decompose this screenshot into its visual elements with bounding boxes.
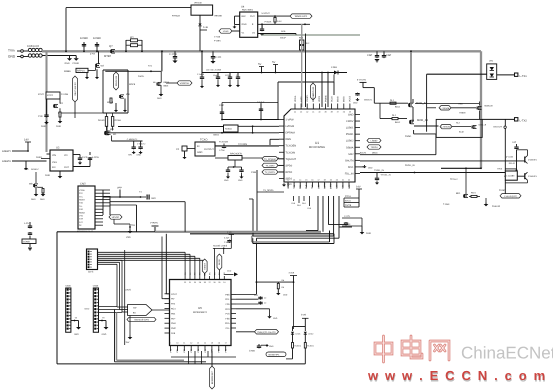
svg-text:1GW8: 1GW8 <box>80 37 88 40</box>
svg-text:1GW8: 1GW8 <box>223 30 230 33</box>
svg-text:R-5V: R-5V <box>277 20 282 23</box>
svg-text:PD-: PD- <box>171 298 175 301</box>
svg-text:TX_SPI(4W): TX_SPI(4W) <box>264 158 276 161</box>
svg-text:TRB48: TRB48 <box>459 112 466 115</box>
svg-text:PD+: PD+ <box>171 317 176 320</box>
svg-text:TX_DATCL: TX_DATCL <box>265 171 277 174</box>
regulator VR1 <box>191 5 213 15</box>
resistor RFP1 box <box>76 68 88 72</box>
svg-text:RESET: RESET <box>204 262 207 269</box>
svg-text:VSUP1: VSUP1 <box>306 94 309 102</box>
ground G-2C4 <box>269 309 271 316</box>
ground G-U1pins <box>282 185 286 187</box>
svg-text:CN/2: CN/2 <box>80 183 86 186</box>
wire U4 pin2 long right <box>258 23 310 25</box>
svg-text:CN06: CN06 <box>93 285 99 288</box>
svg-text:1OUT: 1OUT <box>171 293 178 296</box>
capacitor C-MHZ1 <box>227 167 229 169</box>
wire mod2 to right <box>414 125 439 127</box>
svg-text:REF: REF <box>242 15 247 18</box>
svg-text:PWM1: PWM1 <box>346 133 354 136</box>
ground G-RT <box>361 226 363 231</box>
svg-text:OUT: OUT <box>64 166 70 169</box>
svg-text:TCXO: TCXO <box>200 139 207 142</box>
svg-text:GND: GND <box>41 125 46 128</box>
svg-text:0.47uF: 0.47uF <box>257 101 265 104</box>
svg-text:U1: U1 <box>315 141 319 145</box>
wire feed L-TX1 <box>427 73 487 75</box>
wire cn3 bundle right to U5 fan <box>98 251 186 253</box>
svg-text:BDM/RESET: BDM/RESET <box>211 370 214 384</box>
svg-text:BKGD: BKGD <box>218 259 221 265</box>
wire VBAT bus <box>42 50 481 52</box>
wire top loop <box>65 8 67 52</box>
svg-text:GND: GND <box>31 198 36 201</box>
svg-text:CAP: CAP <box>386 54 392 57</box>
svg-text:VPP: VPP <box>117 187 122 190</box>
connector CN3 <box>87 249 98 270</box>
svg-text:BF1: BF1 <box>456 192 461 195</box>
svg-text:RGND-C: RGND-C <box>31 168 40 171</box>
svg-text:D-4B: D-4B <box>203 26 208 29</box>
net flag VALVE <box>500 194 521 198</box>
wire dta collectors <box>527 150 529 156</box>
svg-text:MOSI: MOSI <box>337 96 340 102</box>
svg-text:OUT: OUT <box>250 15 255 18</box>
svg-text:12: 12 <box>190 342 192 345</box>
svg-text:5-VOUT1: 5-VOUT1 <box>357 79 367 82</box>
svg-text:J-P5: J-P5 <box>24 222 29 225</box>
svg-text:4-PW: 4-PW <box>90 53 95 56</box>
wire ls1 up <box>479 102 481 106</box>
svg-text:13: 13 <box>293 179 295 182</box>
U5 left pins <box>165 293 170 295</box>
ground G-K2b <box>58 121 63 123</box>
svg-text:RMB2: RMB2 <box>79 211 86 214</box>
svg-text:GND1: GND1 <box>36 156 43 159</box>
resistor AVCA <box>344 202 359 204</box>
svg-text:VIN: VIN <box>52 154 56 157</box>
wire pin3 <box>107 132 279 134</box>
wire bottom pins join <box>171 356 236 358</box>
svg-text:ChinaECNet: ChinaECNet <box>461 344 553 363</box>
svg-text:14V: 14V <box>24 139 29 142</box>
capacitor C-FDL <box>376 173 378 178</box>
capacitor C5c <box>229 73 231 77</box>
wire bundle b4 <box>257 237 340 239</box>
wire drop x508 <box>507 150 509 155</box>
svg-text:DTA/MT5: DTA/MT5 <box>528 175 538 178</box>
capacitor C-end <box>345 222 347 223</box>
wire uevdd <box>113 219 115 224</box>
ground G3 <box>172 61 177 64</box>
svg-text:27: 27 <box>209 281 211 284</box>
wire bundle bottom black <box>114 310 116 362</box>
svg-text:RGG: RGG <box>471 192 476 195</box>
svg-text:TX_SPI05: TX_SPI05 <box>263 189 274 192</box>
svg-text:GND: GND <box>238 179 243 182</box>
svg-text:C-STL: C-STL <box>344 215 351 218</box>
svg-text:DL8: DL8 <box>305 184 308 189</box>
svg-text:2N03L: 2N03L <box>138 75 145 78</box>
svg-text:VDDA: VDDA <box>294 95 297 102</box>
wire section bottom <box>187 363 305 365</box>
svg-text:15: 15 <box>305 179 307 182</box>
svg-text:VTRB: VTRB <box>79 189 85 192</box>
svg-text:GND: GND <box>24 168 29 171</box>
svg-text:TX_DMO: TX_DMO <box>266 164 275 167</box>
svg-text:GND: GND <box>102 333 107 336</box>
svg-text:Q?: Q? <box>109 45 113 48</box>
svg-text:TXD04: TXD04 <box>370 146 378 149</box>
svg-text:BAUT4: BAUT4 <box>345 159 354 162</box>
ground G1 <box>69 56 71 58</box>
wire mux out <box>152 309 170 311</box>
svg-text:41: 41 <box>312 111 314 114</box>
wire fdl <box>360 172 505 174</box>
svg-text:P-BIAS: P-BIAS <box>265 21 272 24</box>
svg-text:PM4: PM4 <box>171 322 176 325</box>
svg-text:4-CS0B8: 4-CS0B8 <box>261 24 264 31</box>
wire rgw <box>106 113 108 117</box>
svg-text:CN05: CN05 <box>65 285 71 288</box>
svg-text:RB7W: RB7W <box>164 81 170 84</box>
svg-text:C-YD8: C-YD8 <box>169 53 177 56</box>
vertical flag BKGD <box>217 254 222 270</box>
ground G-pin8 <box>360 166 364 168</box>
svg-text:DTA/MT5: DTA/MT5 <box>528 159 538 162</box>
ground G-W8a <box>114 110 118 112</box>
svg-text:RGP6: RGP6 <box>129 83 136 86</box>
svg-text:GND: GND <box>8 55 16 59</box>
svg-text:INT0: INT0 <box>330 183 333 189</box>
ground G-CN5 <box>71 320 79 322</box>
svg-text:44: 44 <box>294 111 296 114</box>
svg-text:TCXOEN: TCXOEN <box>286 145 297 148</box>
wire lvds vertical <box>124 250 126 345</box>
svg-text:5V: 5V <box>272 61 275 64</box>
wire CSB down <box>252 199 254 236</box>
power flag 5V b <box>273 64 278 66</box>
svg-text:RGB6: RGB6 <box>64 70 71 73</box>
svg-text:MBOX: MBOX <box>372 152 378 155</box>
svg-text:12: 12 <box>287 179 289 182</box>
net flag V1 in <box>219 29 232 33</box>
ground G-U3b <box>24 168 28 170</box>
U1 left pins <box>279 119 284 121</box>
svg-text:37: 37 <box>337 111 339 114</box>
wire inner boundary <box>136 205 138 232</box>
wire bundle b3 <box>252 235 334 237</box>
svg-text:AUDIO LINE3: AUDIO LINE3 <box>213 245 228 248</box>
capacitor C-MHZ2 <box>241 167 243 169</box>
wire loop top <box>277 82 279 119</box>
U5 bottom pins <box>170 346 172 352</box>
svg-text:MAIN-SW: MAIN-SW <box>115 75 118 86</box>
svg-text:14: 14 <box>299 179 301 182</box>
U1 top pins <box>294 104 296 110</box>
resistor RLED2 <box>304 335 306 343</box>
IC U1 system basis chip MC33905 <box>284 109 355 182</box>
node A1 <box>65 50 67 52</box>
wire bundle to pin1 <box>165 234 167 294</box>
svg-text:39: 39 <box>325 111 327 114</box>
svg-text:SM2: SM2 <box>348 153 354 156</box>
resistor RGW0 <box>111 117 113 127</box>
net flag VINSTBL <box>177 81 192 85</box>
svg-text:35: 35 <box>349 111 351 114</box>
svg-text:C-B0UT2: C-B0UT2 <box>137 143 146 146</box>
IC U3 LDO <box>50 150 73 171</box>
wire vert 185 <box>184 202 186 232</box>
svg-text:RELAY: RELAY <box>509 162 516 165</box>
wire RU2 drops <box>301 24 303 107</box>
wire relay <box>504 128 506 171</box>
svg-text:RQK-3WK1: RQK-3WK1 <box>242 9 254 12</box>
svg-text:C-YD: C-YD <box>215 56 221 59</box>
resistor RGW8 <box>105 117 107 127</box>
vertical flag BDM <box>211 351 213 366</box>
svg-text:9: 9 <box>170 342 171 345</box>
svg-text:GND: GND <box>242 23 247 26</box>
capacitor C5a <box>201 51 203 76</box>
power net 3V3a <box>290 275 297 277</box>
wire MID vertical <box>115 90 117 97</box>
resistor PWTB <box>344 206 359 208</box>
net flag L-SENSE2 <box>440 124 452 128</box>
wire w1 drain <box>111 136 113 142</box>
power net 3V3 top <box>229 234 234 236</box>
svg-text:BAL1: BAL1 <box>395 105 401 108</box>
ground G-W2b <box>41 194 46 196</box>
svg-text:CS0: CS0 <box>317 184 320 189</box>
svg-text:GND: GND <box>137 154 142 157</box>
svg-text:C-MB: C-MB <box>249 350 255 353</box>
svg-text:3-V8: 3-V8 <box>301 314 307 317</box>
svg-text:WAKE-UP1: WAKE-UP1 <box>295 15 308 18</box>
svg-text:LSB02: LSB02 <box>371 140 379 143</box>
svg-text:C-PS: C-PS <box>82 156 88 159</box>
svg-text:EN: EN <box>52 166 56 169</box>
svg-text:CON-CH: CON-CH <box>27 44 39 48</box>
svg-text:C-TA8: C-TA8 <box>219 149 224 152</box>
svg-text:16: 16 <box>218 342 220 345</box>
bus ripper SW <box>128 305 152 316</box>
svg-text:LED1: LED1 <box>296 333 302 336</box>
svg-text:LAP0: LAP0 <box>300 96 303 102</box>
svg-text:TXD/L_IN: TXD/L_IN <box>374 169 384 172</box>
ground G-R4 <box>276 293 280 295</box>
svg-text:20: 20 <box>336 179 338 182</box>
test point T4 <box>140 196 142 198</box>
svg-text:REG5B: REG5B <box>215 15 223 18</box>
svg-text:MISO: MISO <box>343 96 346 102</box>
svg-text:L-TX1: L-TX1 <box>520 75 528 78</box>
svg-text:MC9S08GT2: MC9S08GT2 <box>193 311 208 314</box>
svg-text:LSB02: LSB02 <box>346 140 354 143</box>
svg-text:CAP: CAP <box>367 54 373 57</box>
wire pwm loop <box>414 133 436 135</box>
wire bundle b2 <box>190 233 334 235</box>
svg-text:RTC2: RTC2 <box>47 94 54 97</box>
net flag LSB02f <box>367 138 381 142</box>
svg-text:PD1: PD1 <box>225 298 230 301</box>
resistor REXTAL <box>228 156 242 161</box>
svg-text:PD3: PD3 <box>225 308 230 311</box>
capacitor C-TCXB <box>223 144 225 146</box>
svg-text:MC33742WG: MC33742WG <box>309 146 325 149</box>
svg-text:M08LL8: M08LL8 <box>479 124 487 127</box>
svg-text:29: 29 <box>199 281 201 284</box>
diode D-5V <box>276 72 347 74</box>
resistor R4 <box>277 283 279 288</box>
svg-text:PM2: PM2 <box>171 327 176 330</box>
svg-text:RMBY: RMBY <box>79 199 86 202</box>
LED LED2 <box>304 332 307 334</box>
svg-text:30: 30 <box>194 281 196 284</box>
wire cn3 bundle down <box>98 259 123 261</box>
svg-text:GND: GND <box>224 179 229 182</box>
svg-text:RLED1: RLED1 <box>307 345 314 348</box>
svg-text:VSS: VSS <box>52 161 57 164</box>
wire mod out <box>413 130 415 134</box>
svg-text:SW: SW <box>133 307 136 310</box>
svg-text:VR-D08: VR-D08 <box>194 2 202 5</box>
resistor RTCA <box>344 197 359 199</box>
wire bundle bottom gray <box>116 313 118 361</box>
net flag UEVDD <box>109 215 122 219</box>
svg-text:36: 36 <box>343 111 345 114</box>
svg-text:4-CPB: 4-CPB <box>92 156 99 159</box>
svg-text:MODIN: MODIN <box>312 94 315 102</box>
svg-text:GND: GND <box>368 167 373 170</box>
wire rextal bottom <box>234 160 236 167</box>
svg-text:NC/2: NC/2 <box>85 308 91 311</box>
svg-text:AD0: AD0 <box>336 184 339 189</box>
svg-text:PB4: PB4 <box>171 312 176 315</box>
terminal L-TX1 <box>515 73 518 76</box>
U1 right pins <box>355 114 360 116</box>
svg-text:13: 13 <box>197 342 199 345</box>
net flag WAKE-UP1 <box>290 14 312 18</box>
svg-text:GND: GND <box>227 270 232 273</box>
svg-text:C4P: C4P <box>512 141 517 144</box>
svg-text:25: 25 <box>218 281 220 284</box>
svg-text:11: 11 <box>183 342 185 345</box>
svg-text:AD2: AD2 <box>348 184 351 189</box>
svg-text:TM0: TM0 <box>311 184 314 189</box>
node A3 <box>201 50 203 52</box>
transistor Q-DT1 <box>524 157 526 163</box>
transistor Q-LS1 <box>477 106 479 109</box>
resistor COM8 <box>22 239 36 244</box>
svg-text:BAUT4: BAUT4 <box>360 152 367 155</box>
terminal L-TX2 <box>515 118 518 121</box>
svg-text:GND: GND <box>273 317 278 320</box>
wire 5vout long <box>363 87 374 89</box>
svg-text:RX1: RX1 <box>299 184 302 189</box>
svg-text:RC4: RC4 <box>171 308 176 311</box>
svg-text:RGB: RGB <box>281 30 286 33</box>
wire rxd <box>360 160 525 162</box>
U5 top pins <box>184 276 186 280</box>
capacitor J-P5b <box>29 232 31 233</box>
svg-text:3xV: 3xV <box>126 341 130 344</box>
wire nested corner gray <box>251 236 253 242</box>
wire 5V rail <box>202 72 276 74</box>
svg-text:TCXOIN: TCXOIN <box>286 151 296 154</box>
svg-text:PWTB: PWTB <box>345 204 352 207</box>
test point TPA <box>129 226 131 228</box>
wire cstl <box>342 217 362 219</box>
resistor RGP8b <box>59 112 61 117</box>
wire VBAT vertical to U3 <box>45 52 47 152</box>
svg-text:GND: GND <box>157 97 162 100</box>
wire acs8 <box>342 225 362 227</box>
svg-text:FDL_IN: FDL_IN <box>345 172 354 175</box>
svg-text:VDD5: VDD5 <box>318 95 321 102</box>
svg-text:1-VPW: 1-VPW <box>286 119 295 122</box>
svg-text:PDA: PDA <box>225 322 230 325</box>
transistor Q-LS2 <box>472 125 474 128</box>
capacitor C-CS0B8 <box>261 24 263 28</box>
svg-text:C-A4B8: C-A4B8 <box>197 73 205 76</box>
svg-text:GND: GND <box>151 197 156 200</box>
capacitor C5b <box>217 73 219 77</box>
svg-text:PB6: PB6 <box>225 293 230 296</box>
svg-text:U5: U5 <box>198 306 202 310</box>
wire U3 out <box>73 166 90 168</box>
resistor RLED1 <box>292 335 294 343</box>
svg-text:38: 38 <box>331 111 333 114</box>
svg-text:RTV2: RTV2 <box>38 93 44 96</box>
svg-text:T-TXD/L_IN: T-TXD/L_IN <box>381 174 392 177</box>
svg-text:1N: 1N <box>252 32 255 35</box>
ground G-W8b <box>123 110 127 112</box>
svg-text:18: 18 <box>324 179 326 182</box>
svg-text:WKUP: WKUP <box>280 37 287 40</box>
svg-text:5-VOUT: 5-VOUT <box>262 12 271 15</box>
capacitor C-047 <box>260 104 262 119</box>
net flag L-SENSE1 <box>439 106 451 110</box>
svg-text:22: 22 <box>348 179 350 182</box>
svg-text:CN-3: CN-3 <box>88 271 94 274</box>
ground G-K2 <box>44 122 49 124</box>
wire k2 <box>46 99 48 104</box>
svg-text:CSB: CSB <box>251 171 256 174</box>
svg-text:43: 43 <box>300 111 302 114</box>
wire dal <box>360 154 436 156</box>
svg-text:GND: GND <box>56 125 61 128</box>
ground VSS <box>128 231 133 233</box>
wire tcxoen <box>215 145 279 147</box>
capacitor C-YD9 <box>212 51 214 55</box>
svg-text:IN: IN <box>197 145 200 148</box>
svg-text:C-S4B: C-S4B <box>214 36 221 39</box>
resistor network RGB0A <box>224 125 239 132</box>
svg-text:BPD0: BPD0 <box>286 171 293 174</box>
svg-text:GND: GND <box>40 198 45 201</box>
vertical net flag VBAT-SW <box>73 76 78 102</box>
svg-text:RLED2: RLED2 <box>295 345 302 348</box>
wire bundle to pin2 <box>161 237 163 299</box>
svg-text:PWM0: PWM0 <box>324 94 327 102</box>
ground G-mux <box>129 316 131 337</box>
svg-text:RGW8: RGW8 <box>98 119 105 122</box>
transistor Q-BF1 <box>464 194 466 198</box>
wire u1 bottom verticals <box>317 196 319 231</box>
ground G-CN6 <box>99 320 107 322</box>
